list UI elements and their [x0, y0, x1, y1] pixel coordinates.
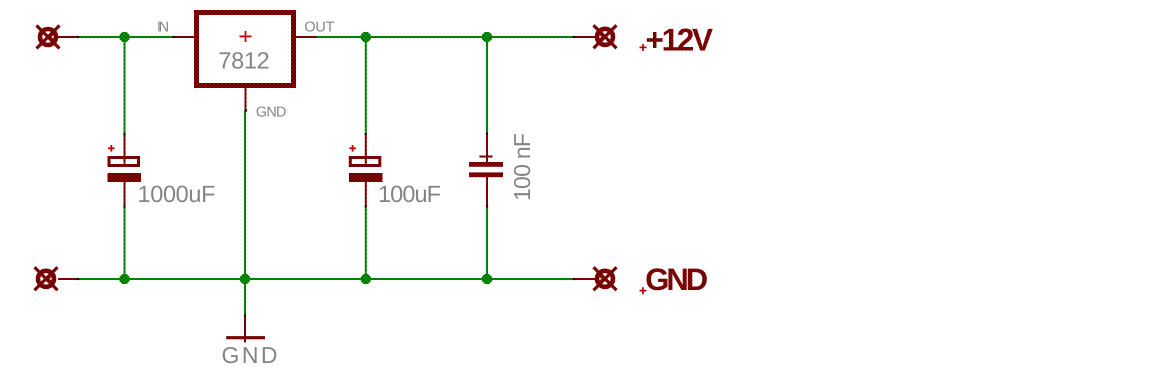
junction bottom C3: [482, 274, 492, 284]
capacitor C2 100uF (polarized): [349, 145, 383, 182]
wire top rail left (net N$1): [58, 36, 174, 38]
capacitor C3 100nF: [469, 157, 503, 178]
junction top C1: [119, 32, 129, 42]
junction bottom C1: [119, 274, 129, 284]
wire bottom rail (net GND): [58, 278, 595, 280]
wire GND symbol stem: [244, 279, 246, 343]
voltage regulator U1 7812 box: [197, 13, 294, 86]
svg-text:100uF: 100uF: [378, 181, 441, 207]
origin cross U1: [240, 31, 252, 42]
svg-text:1000uF: 1000uF: [138, 181, 216, 207]
pad X4 bottom-right: [594, 267, 617, 290]
svg-text:OUT: OUT: [304, 20, 334, 36]
pad X1 top-left: [37, 26, 60, 49]
origin cross +12V: [640, 44, 647, 51]
wire C3 branch vertical: [486, 37, 488, 279]
svg-text:+12V: +12V: [646, 22, 714, 58]
pad X3 top-right: [594, 25, 617, 48]
wire IC OUT pin: [296, 36, 318, 38]
svg-text:100 nF: 100 nF: [509, 133, 535, 201]
junction top C2: [361, 32, 371, 42]
svg-text:GND: GND: [222, 342, 278, 368]
wire C1 branch vertical: [124, 37, 126, 279]
svg-text:IN: IN: [157, 20, 169, 36]
junction top C3: [482, 32, 492, 42]
junction bottom IC GND: [240, 274, 250, 284]
svg-text:GND: GND: [645, 262, 708, 297]
wire joint marks (dark pixels where net meets pin): [77, 36, 575, 317]
wire C2 branch vertical: [365, 37, 367, 279]
wire top rail right (net +12V): [317, 36, 595, 38]
svg-text:GND: GND: [256, 105, 287, 121]
junction bottom C2: [361, 274, 371, 284]
svg-text:7812: 7812: [218, 48, 269, 74]
ground symbol GND1: [226, 336, 265, 339]
capacitor C1 1000uF (polarized): [108, 145, 142, 182]
wire IC GND pin vertical: [244, 88, 247, 279]
wire IC IN pin: [173, 36, 194, 38]
pad X2 bottom-left: [35, 267, 58, 290]
origin cross GND: [640, 287, 647, 294]
